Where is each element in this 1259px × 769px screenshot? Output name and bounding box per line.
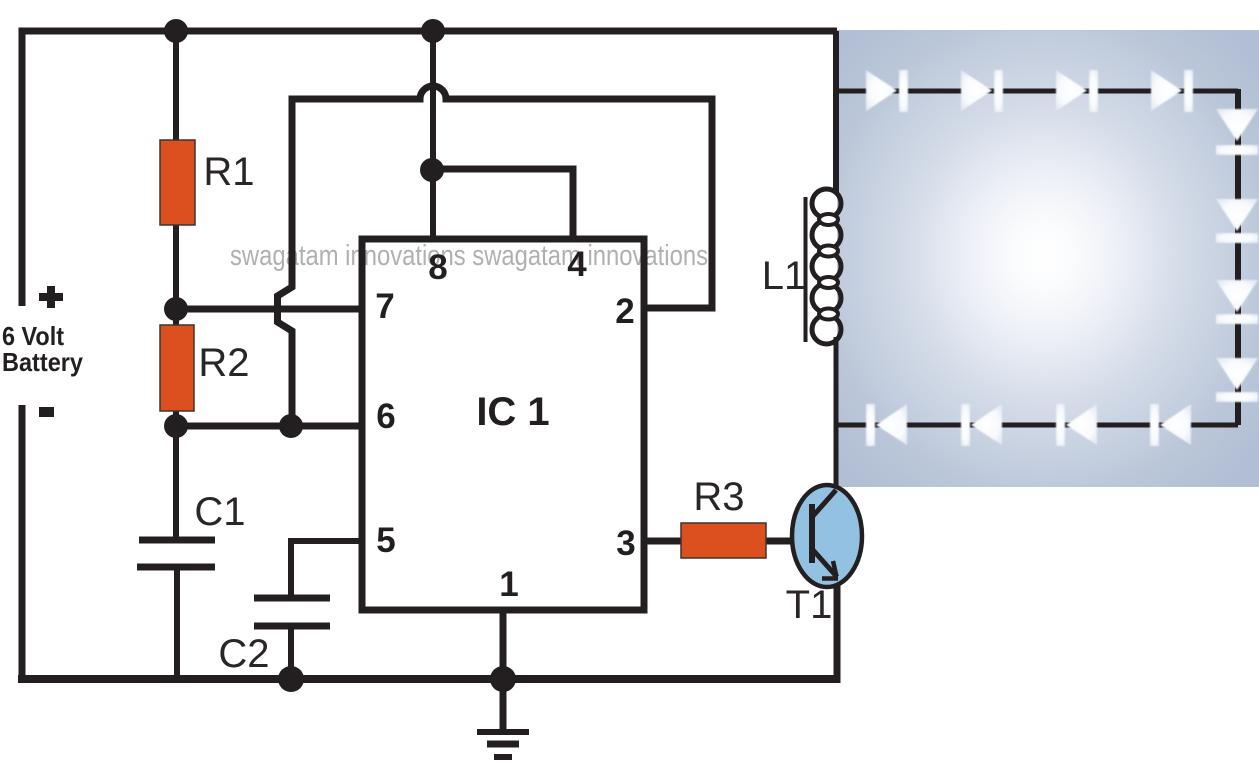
svg-text:R2: R2 — [198, 341, 249, 385]
wire: C2 bottom to ground rail — [288, 626, 294, 679]
capacitor C2 — [254, 598, 330, 626]
wire: R1 bottom to node A — [173, 225, 179, 325]
svg-text:C2: C2 — [218, 632, 269, 676]
wire: pin 3 to R3 — [644, 538, 681, 545]
svg-text:4: 4 — [567, 245, 587, 284]
wire: T1 emitter to ground rail — [834, 578, 841, 683]
svg-text:R3: R3 — [693, 475, 744, 519]
svg-text:L1: L1 — [762, 254, 807, 298]
wire: pin 5 to C2 top — [291, 541, 362, 598]
wire: right LED column — [1235, 89, 1241, 425]
svg-text:5: 5 — [376, 521, 395, 560]
svg-text:IC 1: IC 1 — [476, 390, 549, 434]
wire: node C to pin 4 — [433, 169, 573, 239]
wire: top LED row — [837, 89, 1238, 94]
wire: node A to pin 7 — [176, 306, 359, 313]
node: pin1 at ground rail — [490, 666, 516, 692]
op-amp/timer IC1 box outline — [362, 239, 644, 610]
wire: node B to pin 6 — [176, 423, 359, 430]
wire: +V to R1 top — [173, 31, 179, 140]
svg-text:C1: C1 — [194, 490, 245, 534]
battery minus sign — [39, 407, 54, 417]
transistor T1 — [792, 485, 862, 587]
node C: pin8/pin4 split — [420, 158, 444, 182]
LED D6 — [1216, 199, 1258, 243]
LED D11 — [961, 404, 1002, 446]
LED D5 — [1216, 109, 1258, 155]
IC1 box white fill (under watermark) — [362, 239, 644, 610]
svg-text:swagatam innovations swagatam: swagatam innovations swagatam innovation… — [230, 240, 708, 272]
inductor L1 — [806, 189, 842, 344]
wire: pin 1 to ground rail — [500, 610, 507, 679]
node A: R1/R2/pin7 — [164, 297, 188, 321]
node: +V at R1 — [164, 19, 188, 43]
wire: C1 bottom to ground rail — [174, 567, 180, 679]
LED D12 — [866, 404, 907, 446]
svg-text:6: 6 — [376, 397, 395, 436]
node B: R2/C1/pin6 — [164, 414, 188, 438]
LED panel background — [837, 30, 1259, 487]
LED D7 — [1216, 280, 1258, 324]
capacitor C1 — [137, 540, 215, 567]
node: +V at pin8 drop — [421, 19, 445, 43]
wire: panel top corner down to L1 — [833, 31, 839, 192]
svg-text:2: 2 — [615, 292, 634, 331]
LED D3 — [1056, 70, 1098, 112]
svg-text:3: 3 — [616, 524, 635, 563]
battery plus sign — [39, 286, 63, 308]
wire: pins 2+6 net with hop over pin7 wire and +V wire — [278, 86, 713, 426]
wire: battery negative lead (left, lower) — [19, 405, 26, 683]
svg-text:7: 7 — [375, 287, 394, 326]
wire: bottom LED row — [837, 423, 1238, 428]
wire: +V drop to pin 8 — [430, 31, 436, 239]
LED D9 — [1150, 404, 1191, 446]
wire: battery positive lead (left, upper) — [19, 28, 26, 307]
wire: top +V rail — [22, 28, 837, 35]
LED D8 — [1216, 358, 1258, 402]
wire: R3 to T1 base — [765, 538, 793, 545]
svg-text:R1: R1 — [203, 150, 254, 194]
ground symbol — [477, 679, 529, 757]
LED D10 — [1056, 404, 1097, 446]
wire: L1 bottom to T1 collector — [834, 337, 839, 492]
resistor R3 — [681, 523, 766, 558]
resistor R2 — [160, 325, 194, 411]
wire: R2 bottom to node B — [173, 411, 179, 428]
node: C2 at ground rail — [278, 666, 304, 692]
svg-text:1: 1 — [499, 565, 518, 604]
wire: bottom ground rail — [18, 675, 838, 683]
svg-text:T1: T1 — [786, 583, 833, 627]
LED D2 — [961, 70, 1003, 112]
svg-text:8: 8 — [428, 248, 447, 287]
LED D1 — [866, 70, 908, 112]
wire: node B to C1 top — [173, 426, 179, 540]
LED D4 — [1151, 70, 1193, 112]
node: pin6 wire / pin2-6 net — [279, 414, 303, 438]
svg-text:Battery: Battery — [2, 347, 83, 377]
resistor R1 — [160, 140, 195, 225]
